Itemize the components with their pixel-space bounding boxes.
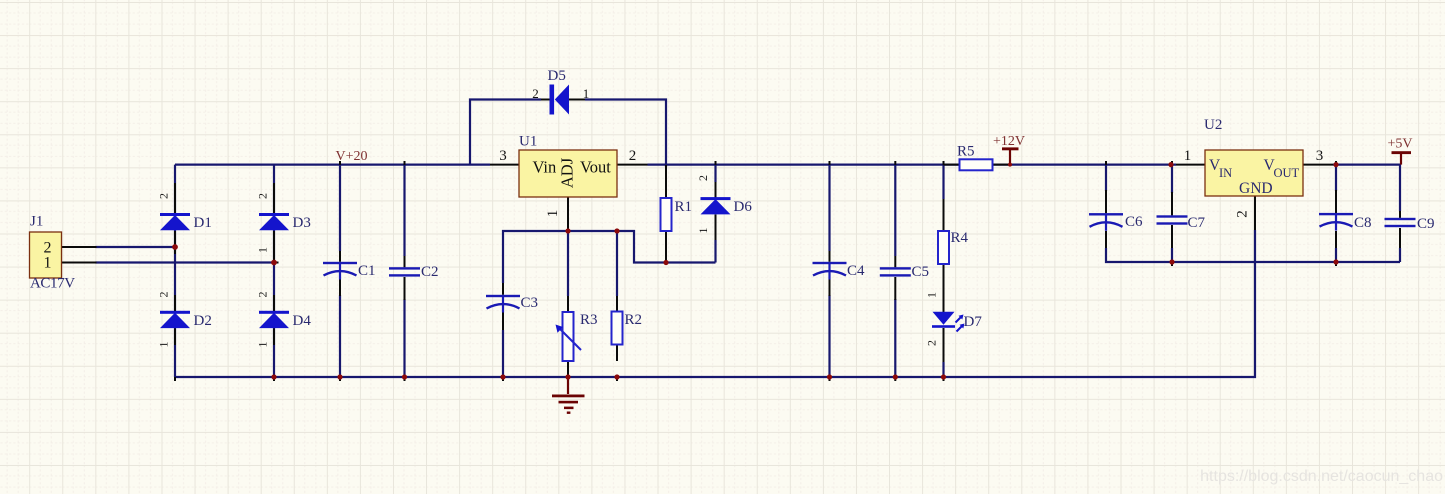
svg-text:2: 2: [157, 292, 171, 298]
svg-text:C7: C7: [1188, 215, 1206, 231]
svg-text:J1: J1: [30, 214, 43, 230]
svg-text:1: 1: [44, 255, 52, 272]
svg-text:GND: GND: [1239, 180, 1273, 197]
svg-text:AC17V: AC17V: [30, 276, 75, 292]
svg-text:2: 2: [629, 148, 637, 164]
svg-text:2: 2: [157, 193, 171, 199]
svg-text:D4: D4: [293, 313, 312, 329]
svg-text:C5: C5: [912, 264, 930, 280]
svg-text:3: 3: [1316, 148, 1324, 164]
svg-text:IN: IN: [1219, 166, 1232, 180]
svg-text:C6: C6: [1125, 214, 1143, 230]
svg-text:C1: C1: [358, 263, 376, 279]
svg-text:1: 1: [256, 247, 270, 253]
svg-text:1: 1: [583, 86, 590, 101]
svg-text:R4: R4: [951, 230, 969, 246]
svg-text:1: 1: [256, 342, 270, 348]
svg-text:3: 3: [499, 148, 507, 164]
svg-text:D2: D2: [194, 313, 212, 329]
svg-text:V+20: V+20: [336, 149, 368, 164]
svg-text:2: 2: [256, 292, 270, 298]
svg-text:R3: R3: [580, 312, 598, 328]
svg-text:+5V: +5V: [1388, 137, 1413, 152]
svg-text:2: 2: [532, 86, 539, 101]
svg-text:OUT: OUT: [1274, 166, 1300, 180]
svg-text:+12V: +12V: [993, 134, 1025, 149]
svg-text:1: 1: [1184, 148, 1192, 164]
svg-text:R2: R2: [625, 312, 643, 328]
svg-text:D7: D7: [964, 314, 983, 330]
svg-text:ADJ: ADJ: [558, 157, 577, 188]
svg-text:U1: U1: [519, 134, 537, 150]
svg-text:2: 2: [256, 193, 270, 199]
svg-text:D6: D6: [734, 199, 753, 215]
svg-text:C2: C2: [421, 264, 439, 280]
svg-text:2: 2: [925, 340, 939, 346]
svg-text:C8: C8: [1354, 215, 1372, 231]
svg-text:https://blog.csdn.net/caocun_c: https://blog.csdn.net/caocun_chao: [1200, 468, 1443, 485]
svg-text:1: 1: [925, 292, 939, 298]
svg-text:D3: D3: [293, 215, 311, 231]
svg-text:C4: C4: [847, 263, 865, 279]
svg-text:2: 2: [1235, 210, 1251, 218]
svg-text:2: 2: [696, 175, 710, 181]
svg-text:R1: R1: [675, 199, 693, 215]
svg-text:1: 1: [545, 210, 561, 218]
svg-text:C3: C3: [521, 295, 539, 311]
svg-text:1: 1: [157, 342, 171, 348]
svg-text:R5: R5: [957, 144, 975, 160]
svg-text:Vout: Vout: [580, 157, 611, 176]
svg-text:D5: D5: [548, 68, 566, 84]
svg-text:Vin: Vin: [533, 157, 557, 176]
svg-text:U2: U2: [1204, 117, 1222, 133]
svg-text:1: 1: [696, 228, 710, 234]
svg-text:D1: D1: [194, 215, 212, 231]
svg-text:C9: C9: [1417, 216, 1435, 232]
